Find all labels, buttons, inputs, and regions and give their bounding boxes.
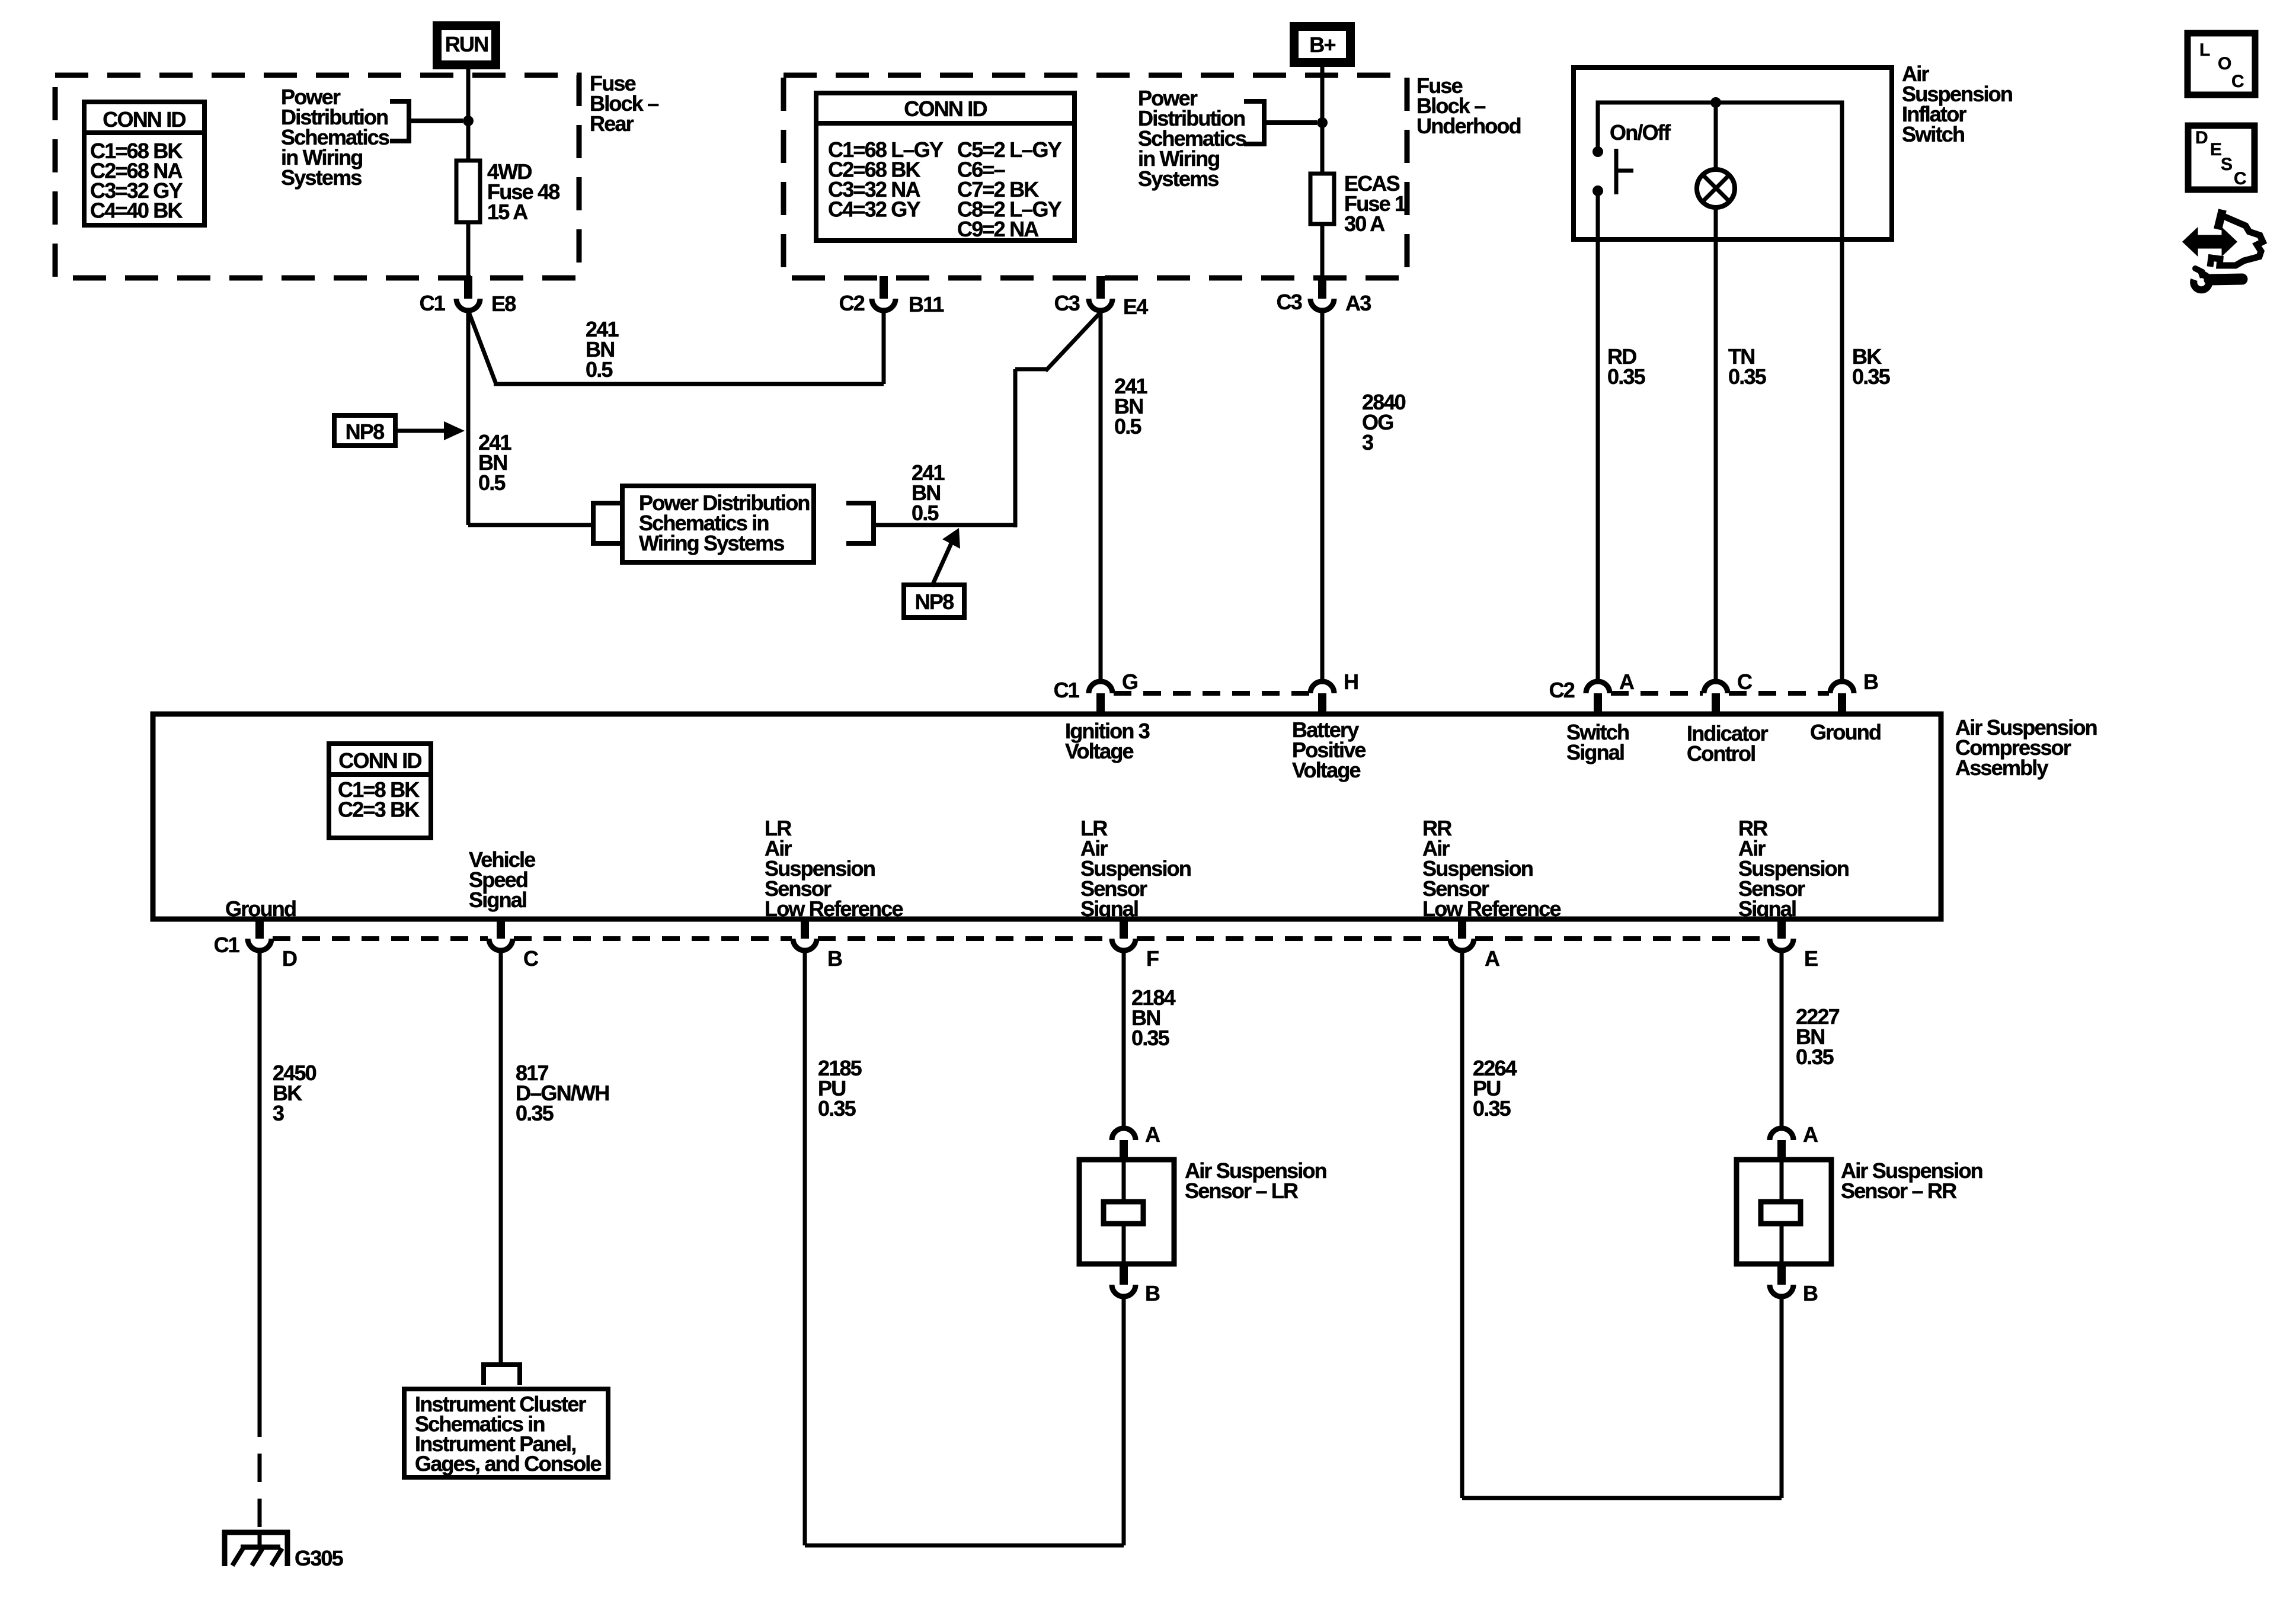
svg-text:Ground: Ground <box>1810 720 1881 744</box>
svg-text:D: D <box>2195 128 2208 148</box>
svg-text:L: L <box>2199 40 2210 60</box>
svg-text:Switch: Switch <box>1902 122 1964 146</box>
NP8 option box 2 <box>904 585 964 617</box>
connector B (sensor LR) <box>1120 1264 1128 1285</box>
bracket left of power distribution box <box>593 503 621 543</box>
svg-text:Assembly: Assembly <box>1955 756 2048 780</box>
svg-text:C1: C1 <box>214 933 240 957</box>
pin B (compressor bottom) <box>801 919 809 939</box>
svg-text:RUN: RUN <box>445 32 488 56</box>
svg-text:A: A <box>1485 946 1500 971</box>
node junction RUN feed <box>463 116 474 126</box>
svg-text:C: C <box>523 946 539 971</box>
svg-text:Signal: Signal <box>1566 740 1624 764</box>
resistor element LR <box>1104 1202 1143 1224</box>
wire 2184 BN signal (pin F) <box>1122 950 1126 1128</box>
svg-text:3: 3 <box>1362 430 1373 454</box>
pin A (compressor top) <box>1586 681 1610 693</box>
svg-text:0.5: 0.5 <box>586 357 613 382</box>
svg-text:Voltage: Voltage <box>1065 739 1134 763</box>
svg-text:C3: C3 <box>1277 290 1302 314</box>
pin C (compressor bottom) <box>497 919 505 939</box>
svg-text:B+: B+ <box>1309 33 1335 57</box>
dashed connector line C2 top <box>1611 691 1703 696</box>
wire 2264 PU low reference (pin A) <box>1460 950 1464 1498</box>
bracket to run feed wire <box>390 101 409 141</box>
svg-text:E4: E4 <box>1123 295 1148 319</box>
wire 241 BN diagonal C1 E8 to C2 B11 run <box>468 311 496 384</box>
svg-text:A: A <box>1145 1122 1160 1147</box>
svg-text:Signal: Signal <box>469 888 526 912</box>
svg-text:0.35: 0.35 <box>818 1096 856 1121</box>
ground G305 <box>222 1530 290 1535</box>
air suspension inflator switch box <box>1574 68 1892 239</box>
svg-text:O: O <box>2218 54 2231 73</box>
svg-text:E: E <box>2210 140 2221 159</box>
svg-text:Rear: Rear <box>590 111 634 136</box>
wire loop to LR sensor <box>805 1544 1124 1548</box>
CONN ID table (fuse block underhood) <box>816 93 1075 241</box>
svg-text:0.5: 0.5 <box>912 501 939 525</box>
wire into power distribution reference <box>468 523 593 527</box>
svg-text:C: C <box>1737 670 1753 694</box>
pin C (compressor top) <box>1704 681 1728 693</box>
schematic navigation icon (wrench) <box>2193 274 2209 290</box>
on/off switch contacts <box>1593 146 1603 157</box>
indicator lamp <box>1714 103 1718 171</box>
svg-text:E: E <box>1804 946 1818 971</box>
connector B (sensor RR) <box>1777 1264 1786 1285</box>
fuse block - underhood dashed box <box>784 75 1407 278</box>
wire loop to RR sensor <box>1462 1496 1782 1500</box>
svg-text:A: A <box>1803 1122 1818 1147</box>
svg-text:B11: B11 <box>909 292 944 316</box>
connector A (sensor RR) <box>1770 1128 1793 1140</box>
LOC reference box <box>2188 33 2255 95</box>
svg-text:0.35: 0.35 <box>1796 1045 1834 1069</box>
svg-text:Wiring Systems: Wiring Systems <box>639 531 784 555</box>
svg-text:Sensor – LR: Sensor – LR <box>1185 1179 1299 1203</box>
svg-text:C9=2 NA: C9=2 NA <box>957 217 1039 241</box>
schematic navigation icon (outline arrow) <box>2218 210 2223 229</box>
svg-text:CONN ID: CONN ID <box>103 107 186 132</box>
svg-text:Sensor – RR: Sensor – RR <box>1841 1179 1957 1203</box>
resistor element RR <box>1761 1202 1801 1224</box>
svg-text:On/Off: On/Off <box>1610 120 1671 145</box>
svg-text:0.35: 0.35 <box>1473 1096 1511 1121</box>
svg-text:0.35: 0.35 <box>1131 1026 1170 1050</box>
svg-text:Systems: Systems <box>281 165 362 190</box>
wire fuse 48 to connector C1 <box>466 222 471 277</box>
connector C1 E8 <box>464 276 472 299</box>
wire 2227 BN signal (pin E) <box>1780 950 1784 1128</box>
DESC reference box <box>2188 126 2255 190</box>
svg-text:0.5: 0.5 <box>478 470 506 495</box>
svg-text:C1: C1 <box>1054 678 1080 702</box>
svg-text:G: G <box>1122 670 1137 694</box>
wire B+ to ECAS fuse <box>1320 67 1325 174</box>
sensor RR body <box>1737 1160 1831 1264</box>
dashed connector line C1 top <box>1114 691 1309 696</box>
sensor LR body <box>1079 1160 1174 1264</box>
svg-text:C2: C2 <box>1549 678 1575 702</box>
svg-text:C: C <box>2231 72 2244 91</box>
NP8 option box 1 <box>334 415 395 446</box>
fuse block - rear dashed box <box>55 75 579 278</box>
wire sensor LR B to low reference loop <box>1122 1297 1126 1545</box>
pin F (compressor bottom) <box>1120 919 1128 939</box>
pin D (compressor bottom) <box>255 919 264 939</box>
svg-text:B: B <box>1803 1281 1818 1305</box>
CONN ID table (fuse block rear) <box>84 102 204 225</box>
pin B (compressor top) <box>1830 681 1854 693</box>
svg-text:C4=40 BK: C4=40 BK <box>90 199 183 223</box>
air suspension compressor assembly box <box>153 714 1941 919</box>
svg-text:C3: C3 <box>1054 291 1080 315</box>
svg-text:F: F <box>1146 946 1159 971</box>
svg-text:Gages, and Console: Gages, and Console <box>415 1452 601 1476</box>
node junction B+ feed <box>1317 117 1328 128</box>
svg-text:15 A: 15 A <box>487 200 528 224</box>
connector C3 A3 <box>1318 276 1326 299</box>
pin E (compressor bottom) <box>1777 919 1786 939</box>
svg-text:A3: A3 <box>1345 291 1371 315</box>
svg-text:0.5: 0.5 <box>1114 414 1141 438</box>
wire lamp to pin C <box>1714 207 1718 681</box>
svg-text:Signal: Signal <box>1080 897 1138 921</box>
pin A (compressor bottom) <box>1458 919 1466 939</box>
svg-text:H: H <box>1344 670 1358 694</box>
CONN ID table (compressor) <box>329 744 431 838</box>
wire 2450 BK ground pin D <box>258 950 262 1409</box>
bracket above instrument cluster box <box>484 1365 520 1385</box>
wire riser and jog to C3 E4 <box>1013 369 1018 527</box>
wire switch to pin A <box>1596 191 1600 681</box>
svg-text:CONN ID: CONN ID <box>338 748 421 773</box>
connector A (sensor LR) <box>1112 1128 1136 1140</box>
svg-text:Underhood: Underhood <box>1416 114 1521 138</box>
schematic navigation icon (double arrow) <box>2185 232 2234 252</box>
wire sensor RR B to low reference loop <box>1780 1297 1784 1498</box>
fuse ECAS Fuse 1 30A <box>1310 174 1334 224</box>
svg-text:NP8: NP8 <box>915 590 954 614</box>
svg-text:0.35: 0.35 <box>1607 364 1646 389</box>
wire riser to C2 B11 <box>882 309 886 384</box>
wire from power distribution box to riser <box>874 523 1015 527</box>
svg-text:Low Reference: Low Reference <box>765 897 903 921</box>
wire ECAS fuse to connector C3 <box>1320 224 1325 277</box>
wire ground to pin B <box>1840 239 1844 681</box>
pin G (compressor top) <box>1089 681 1112 693</box>
instrument cluster schematics reference box <box>404 1389 608 1477</box>
wire 241 BN from C1 E8 down <box>466 311 471 525</box>
svg-text:S: S <box>2221 155 2232 174</box>
dashed connector line C1 bottom <box>273 936 488 941</box>
svg-text:B: B <box>1145 1281 1160 1305</box>
arrow NP8 to wire <box>395 429 449 433</box>
svg-text:Systems: Systems <box>1138 167 1219 191</box>
svg-text:Control: Control <box>1687 741 1755 766</box>
node lamp tap <box>1710 97 1721 108</box>
svg-text:Signal: Signal <box>1738 897 1796 921</box>
svg-text:C1: C1 <box>420 291 446 315</box>
wire 2185 PU low reference (pin B) <box>803 950 807 1545</box>
svg-text:B: B <box>1863 670 1878 694</box>
svg-text:Voltage: Voltage <box>1292 758 1361 782</box>
svg-text:CONN ID: CONN ID <box>904 97 987 121</box>
fuse 48 (4WD 15A) <box>456 161 480 222</box>
svg-text:C2=3 BK: C2=3 BK <box>338 798 420 822</box>
connector C2 B11 <box>880 276 888 299</box>
svg-text:30 A: 30 A <box>1344 212 1385 236</box>
svg-text:B: B <box>827 946 842 971</box>
svg-text:E8: E8 <box>491 292 516 316</box>
svg-text:C4=32 GY: C4=32 GY <box>828 197 920 222</box>
wire 241 BN C3 E4 to ignition 3 pin G <box>1099 311 1103 681</box>
wire 817 vehicle speed signal <box>499 950 503 1363</box>
svg-text:Ground: Ground <box>225 897 296 921</box>
svg-text:D: D <box>282 946 297 971</box>
power distribution schematics reference box <box>622 486 814 562</box>
svg-text:3: 3 <box>273 1101 284 1125</box>
connector C3 E4 <box>1096 276 1105 299</box>
B+ battery feed box <box>1294 27 1351 63</box>
svg-text:0.35: 0.35 <box>516 1101 554 1125</box>
svg-text:0.35: 0.35 <box>1852 364 1891 389</box>
wire RUN to fuse 48 <box>466 65 471 161</box>
svg-text:0.35: 0.35 <box>1728 364 1767 389</box>
svg-text:C: C <box>2234 169 2246 188</box>
svg-text:Low Reference: Low Reference <box>1422 897 1560 921</box>
svg-text:A: A <box>1619 670 1635 694</box>
arrow NP8 2 to wire <box>932 543 951 587</box>
switch internal feed wire <box>1598 103 1842 239</box>
bracket right of power distribution box <box>846 503 874 543</box>
svg-text:G305: G305 <box>295 1546 344 1570</box>
RUN ignition feed box <box>437 26 496 65</box>
svg-text:NP8: NP8 <box>346 420 384 444</box>
svg-text:C2: C2 <box>839 291 865 315</box>
wire 2840 OG C3 A3 to battery pin H <box>1320 311 1325 681</box>
bracket to B+ feed wire <box>1244 101 1264 144</box>
pin H (compressor top) <box>1310 681 1334 693</box>
